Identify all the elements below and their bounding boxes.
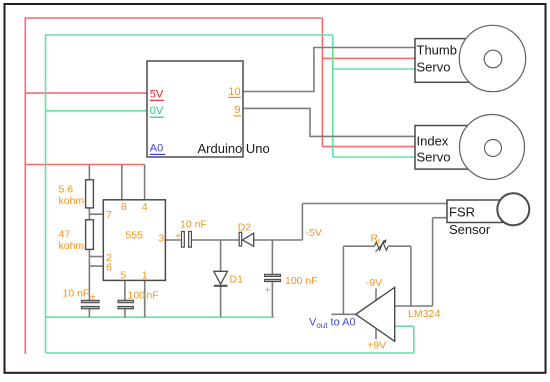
svg-text:Servo: Servo (417, 60, 451, 75)
svg-text:Index: Index (417, 134, 449, 149)
variable resistor Rf (375, 242, 389, 250)
svg-text:100: 100 (128, 289, 146, 301)
svg-text:10 nF: 10 nF (180, 219, 207, 231)
FSR Sensor pad (497, 193, 529, 225)
svg-text:D1: D1 (230, 274, 244, 286)
diode D1 (214, 271, 228, 284)
wire 555 pin 1 to ground rail (144, 280, 146, 317)
wire between R1 and R2 (88, 208, 90, 220)
diode D2 (239, 232, 242, 246)
wire 555 pin 8 supply stub (121, 165, 123, 200)
Thumb Servo wheel (459, 25, 525, 91)
svg-text:-5V: -5V (306, 227, 322, 239)
wire pin5 cap to ground rail (124, 309, 126, 317)
wire red to Index Servo (322, 146, 415, 148)
svg-text:A0: A0 (150, 142, 163, 154)
svg-text:+: + (175, 231, 181, 242)
wire green op-amp vertical (413, 326, 415, 353)
svg-text:0V: 0V (150, 105, 164, 117)
wire -5V node vertical (301, 204, 303, 241)
svg-text:8: 8 (121, 201, 127, 213)
svg-text:10: 10 (228, 86, 240, 98)
wire feedback top right (388, 245, 411, 247)
svg-text:Sensor: Sensor (449, 222, 491, 237)
wire FSR bottom stub (433, 217, 447, 219)
svg-text:Thumb: Thumb (417, 43, 457, 58)
wire green ground rail lower (46, 352, 414, 354)
wire op-amp output stub (332, 313, 356, 315)
wire -5V to FSR top (302, 203, 447, 205)
svg-text:47: 47 (59, 229, 71, 241)
svg-text:kohm: kohm (59, 195, 85, 207)
FSR Sensor box (447, 200, 502, 223)
wire red to Thumb Servo (322, 57, 415, 59)
svg-text:9: 9 (234, 104, 240, 116)
wire D2 to -5V node (254, 239, 303, 241)
wire feedback top left (343, 245, 374, 247)
wire red +5V top horizontal (25, 17, 323, 19)
wire 10nF cap to ground rail (88, 309, 90, 317)
wire 555 pin 5 to cap (124, 280, 126, 300)
wire 100nF to ground rail (271, 282, 273, 318)
wire to 555 pin 7 (89, 213, 103, 215)
svg-text:5: 5 (120, 270, 126, 282)
Thumb Servo box (415, 39, 481, 83)
Index Servo hub (485, 140, 502, 157)
Thumb Servo hub (484, 50, 502, 68)
svg-text:1: 1 (142, 270, 148, 282)
wire Arduino pin 10 to Thumb Servo (243, 48, 415, 92)
svg-text:7: 7 (106, 209, 112, 221)
wire 555 pin 3 output (165, 239, 181, 241)
svg-text:6: 6 (106, 262, 112, 274)
wire red +5V vertical rail (24, 18, 26, 354)
wire op-amp +9V supply stub (375, 328, 377, 340)
wire green to op-amp noninverting input (395, 325, 414, 327)
wire green ground rail upper (46, 316, 275, 318)
svg-text:Vout to A0: Vout to A0 (309, 316, 356, 330)
resistor R2 47 kohm (86, 220, 94, 250)
svg-text:+: + (90, 293, 96, 304)
svg-text:5.6: 5.6 (59, 183, 74, 195)
svg-text:10 nF: 10 nF (63, 287, 90, 299)
svg-text:FSR: FSR (449, 204, 475, 219)
wire to 555 pin 6 (89, 265, 103, 267)
wire green servo vertical (332, 35, 334, 157)
555 timer U2 box (103, 200, 165, 281)
capacitor C1 10 nF coupling (182, 232, 185, 248)
wire red servo vertical (321, 18, 323, 147)
wire green 0V vertical rail (45, 35, 47, 353)
svg-text:5V: 5V (150, 88, 164, 100)
svg-text:D2: D2 (238, 222, 252, 234)
wire red rail to 555 supply (25, 164, 144, 166)
wire D1 stub up (220, 240, 222, 271)
svg-text:4: 4 (142, 201, 148, 213)
capacitor C4 100 nF pin5 (118, 300, 133, 302)
wire green to Thumb Servo (333, 68, 415, 70)
Index Servo box (415, 126, 481, 170)
Index Servo wheel (460, 115, 525, 180)
wire op-amp inverting input (395, 305, 433, 307)
resistor R1 5.6 kohm (86, 180, 94, 208)
wire resistor chain top (88, 165, 90, 180)
wire below R2 to capacitor (88, 249, 90, 300)
svg-text:LM324: LM324 (408, 308, 440, 320)
wire green to Arduino 0V pin (46, 110, 148, 112)
svg-text:nF: nF (146, 289, 158, 301)
svg-text:-9V: -9V (366, 277, 382, 289)
svg-text:+: + (265, 286, 271, 297)
wire feedback left vertical (342, 246, 344, 314)
wire FSR down to op-amp (432, 218, 434, 306)
wire to 555 pin 2 (89, 256, 103, 258)
svg-text:3: 3 (158, 232, 164, 244)
capacitor C2 100 nF smoothing (265, 274, 281, 276)
op-amp U3 LM324 (356, 287, 395, 341)
svg-text:Servo: Servo (417, 150, 451, 165)
wire 555 pin 4 supply stub (144, 165, 146, 200)
wire red to Arduino 5V pin (25, 92, 147, 94)
svg-text:kohm: kohm (59, 240, 85, 252)
wire Arduino pin 9 to Index Servo (243, 108, 415, 136)
wire feedback right vertical (410, 246, 412, 306)
Arduino Uno U1 box (147, 61, 243, 157)
wire op-amp -9V supply stub (375, 289, 377, 301)
svg-text:Arduino Uno: Arduino Uno (198, 141, 270, 156)
wire D1 to ground rail (220, 286, 222, 317)
wire 100nF stub up (271, 240, 273, 274)
capacitor C3 10 nF bottom (81, 300, 99, 302)
wire green to Index Servo (333, 156, 415, 158)
wire coupling cap to D2 (191, 239, 239, 241)
wire green 0V top horizontal (45, 34, 333, 36)
svg-text:+9V: +9V (367, 340, 386, 352)
svg-text:100 nF: 100 nF (285, 275, 318, 287)
svg-text:555: 555 (125, 230, 143, 242)
